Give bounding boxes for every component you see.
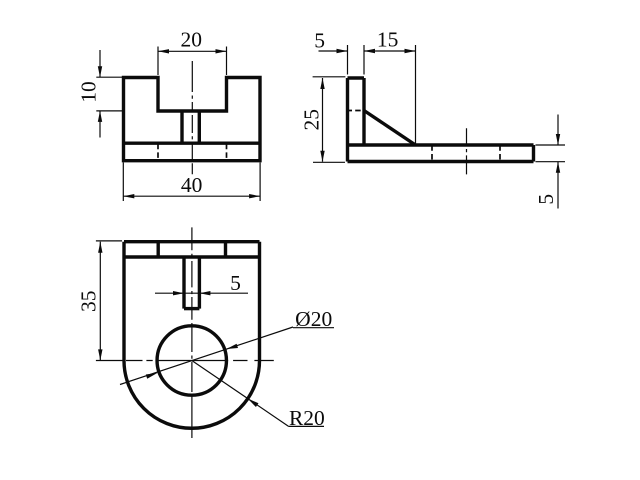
- plan view band slot mark left: [156, 242, 159, 257]
- dia 20 text underline: [293, 327, 334, 329]
- dim 40 arrow left: [123, 194, 134, 198]
- dim 25 extension line top: [313, 76, 346, 78]
- dim 5 wall dimension line with tail: [319, 50, 348, 52]
- side view hidden slot bottom: [347, 110, 365, 112]
- front view small slot right wall: [198, 111, 201, 143]
- dim 5 base arrow bottom: [556, 162, 560, 173]
- plan view top edge: [124, 240, 260, 243]
- front view base top edge: [124, 141, 261, 144]
- dim 10 extension line bottom: [96, 110, 124, 112]
- plan view wall band bottom edge: [124, 255, 260, 258]
- dim 20 dimension line: [158, 50, 227, 52]
- dim 40 extension line right: [259, 163, 261, 202]
- svg-text:Ø20: Ø20: [295, 307, 332, 331]
- plan view slot right wall: [198, 257, 201, 309]
- dim 5 slot arrow right: [199, 291, 210, 295]
- side view rib diagonal: [364, 111, 416, 146]
- dim 5 base extension line bottom: [536, 161, 566, 163]
- dim 40 extension line left: [122, 163, 124, 202]
- svg-text:20: 20: [181, 28, 203, 52]
- plan view band slot mark right: [224, 242, 227, 257]
- dim 10 arrow top: [98, 66, 102, 77]
- side view wall left edge: [346, 78, 349, 162]
- front view hidden hole edge left: [157, 144, 159, 161]
- dim 5 slot dimension line: [155, 292, 248, 294]
- dim 25 arrow top: [320, 78, 324, 89]
- side view base right edge: [532, 145, 535, 162]
- dim 5 slot arrow left: [173, 291, 184, 295]
- front view vertical centerline: [191, 61, 193, 174]
- dim 25 extension line bottom: [313, 161, 345, 163]
- dia 20 arrow lower left: [146, 373, 158, 379]
- dim 5 base extension line top: [536, 144, 566, 146]
- dim 5 base dimension line top segment: [557, 115, 559, 146]
- side view hole centerline: [466, 128, 468, 174]
- dim 20 arrow right: [216, 49, 227, 53]
- plan view hole circle: [157, 326, 226, 395]
- R20 text underline: [288, 425, 324, 427]
- front view outline: [124, 78, 261, 161]
- svg-text:5: 5: [314, 29, 325, 53]
- dia 20 leader line: [120, 327, 293, 385]
- R20 leader line: [192, 361, 288, 427]
- dim 35 extension line bottom: [96, 360, 124, 362]
- side view base top edge: [348, 143, 534, 146]
- dim 5 base dimension line bottom segment: [557, 162, 559, 209]
- dim 10 dimension line bottom segment: [99, 111, 101, 138]
- dim 15 arrow right: [405, 49, 416, 53]
- dim 15 dimension line: [364, 50, 416, 52]
- svg-text:25: 25: [299, 109, 323, 131]
- dim 15 arrow left: [364, 49, 375, 53]
- front view small slot left wall: [180, 111, 183, 143]
- dim 5 wall arrow: [337, 49, 348, 53]
- dim 5 wall extension line left: [347, 45, 349, 75]
- front view hidden hole edge right: [226, 144, 228, 161]
- plan view left edge: [122, 242, 125, 361]
- side view hidden hole edge right: [499, 145, 501, 161]
- side view base bottom edge: [348, 160, 534, 163]
- svg-text:40: 40: [181, 173, 203, 197]
- svg-text:5: 5: [534, 194, 558, 205]
- dim 35 extension line top: [96, 240, 122, 242]
- plan view slot left wall: [182, 257, 185, 309]
- dim 35 arrow top: [98, 242, 102, 253]
- dim 40 arrow right: [249, 194, 260, 198]
- svg-text:15: 15: [377, 27, 399, 51]
- dim 20 extension line right: [226, 47, 228, 76]
- R20 arrow: [248, 399, 259, 407]
- dim 35 arrow bottom: [98, 349, 102, 360]
- plan view vertical centerline: [191, 227, 193, 438]
- plan view slot bottom: [184, 307, 199, 310]
- plan view bottom arc R20: [124, 361, 260, 429]
- svg-text:35: 35: [76, 290, 100, 312]
- dim 40 dimension line: [123, 195, 260, 197]
- side view hidden hole edge left: [431, 145, 433, 161]
- dim 10 arrow bottom: [98, 111, 102, 122]
- dim 15 extension line right: [415, 45, 417, 145]
- dim 25 dimension line: [322, 78, 324, 162]
- dia 20 arrow upper right: [227, 344, 239, 349]
- dim 20 extension line left: [157, 47, 159, 76]
- svg-text:10: 10: [76, 81, 100, 103]
- svg-text:R20: R20: [289, 406, 325, 430]
- dim 20 arrow left: [158, 49, 169, 53]
- dim 10 extension line top: [96, 76, 122, 78]
- side view wall right edge: [362, 78, 365, 145]
- plan view horizontal centerline: [126, 360, 274, 362]
- dim 5 wall extension line right: [363, 45, 365, 75]
- dim 10 dimension line top segment: [99, 50, 101, 77]
- dim 25 arrow bottom: [320, 151, 324, 162]
- dim 35 dimension line: [99, 242, 101, 361]
- plan view right edge: [258, 242, 261, 361]
- svg-text:5: 5: [230, 271, 241, 295]
- side view wall top edge: [348, 76, 365, 79]
- dim 5 base arrow top: [556, 134, 560, 145]
